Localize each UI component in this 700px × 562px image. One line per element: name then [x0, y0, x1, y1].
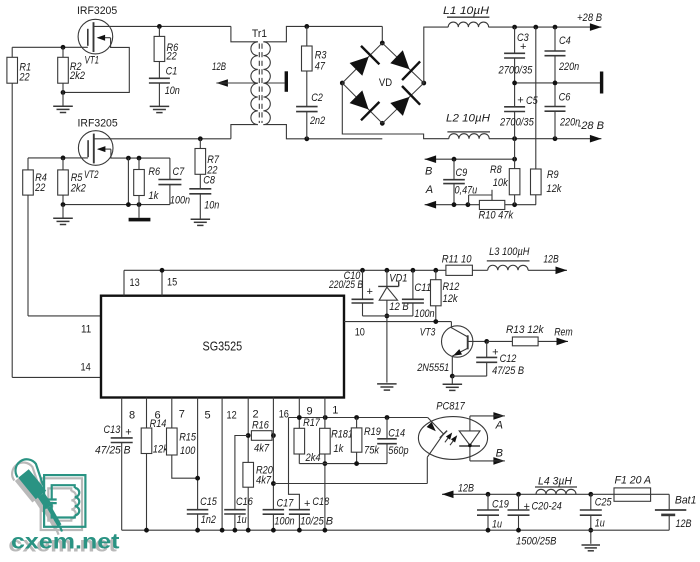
svg-text:+: + — [517, 95, 523, 107]
svg-text:1k: 1k — [148, 190, 158, 202]
svg-text:R16: R16 — [252, 420, 270, 432]
svg-text:R11 10: R11 10 — [442, 254, 473, 266]
svg-text:47: 47 — [315, 60, 326, 72]
svg-text:Rem: Rem — [554, 326, 573, 338]
svg-text:Tr1: Tr1 — [252, 28, 267, 40]
svg-text:C1: C1 — [166, 66, 178, 78]
svg-text:22: 22 — [34, 182, 45, 194]
svg-text:C6: C6 — [559, 91, 571, 103]
svg-text:SG3525: SG3525 — [203, 339, 243, 354]
svg-text:B: B — [425, 166, 432, 178]
svg-text:14: 14 — [81, 362, 91, 374]
svg-text:R10 47k: R10 47k — [479, 209, 514, 221]
svg-text:VD1: VD1 — [389, 273, 407, 285]
svg-text:100n: 100n — [170, 194, 190, 206]
svg-text:10n: 10n — [165, 85, 180, 97]
svg-text:B: B — [326, 516, 333, 528]
svg-text:R15: R15 — [179, 432, 197, 444]
svg-text:12B: 12B — [212, 61, 226, 73]
svg-text:9: 9 — [307, 406, 313, 418]
svg-text:10k: 10k — [493, 177, 509, 189]
svg-text:47/25 B: 47/25 B — [492, 365, 524, 377]
svg-text:2k4: 2k4 — [305, 452, 321, 464]
svg-text:+: + — [367, 286, 373, 298]
svg-text:C5: C5 — [526, 95, 538, 107]
svg-text:VT1: VT1 — [85, 55, 100, 67]
svg-text:R6: R6 — [148, 166, 160, 178]
svg-text:12k: 12k — [443, 293, 459, 305]
svg-text:0,47u: 0,47u — [455, 184, 478, 196]
svg-text:C4: C4 — [559, 35, 571, 47]
svg-text:-28 B: -28 B — [578, 120, 605, 132]
svg-text:10/25: 10/25 — [300, 516, 324, 528]
svg-text:C11: C11 — [414, 282, 431, 294]
svg-text:L1 10µH: L1 10µH — [443, 5, 489, 17]
svg-text:12: 12 — [227, 409, 237, 421]
svg-text:5: 5 — [205, 409, 211, 421]
svg-text:B: B — [496, 448, 503, 460]
svg-text:2k2: 2k2 — [70, 183, 86, 195]
svg-text:4k7: 4k7 — [254, 442, 270, 454]
svg-text:R12: R12 — [443, 281, 460, 293]
svg-text:2700/35: 2700/35 — [499, 117, 534, 129]
svg-text:10n: 10n — [204, 199, 219, 211]
svg-text:IRF3205: IRF3205 — [77, 5, 117, 17]
svg-text:2700/35: 2700/35 — [498, 64, 533, 76]
svg-text:VT2: VT2 — [84, 169, 99, 181]
svg-text:100: 100 — [180, 445, 196, 457]
svg-text:R8: R8 — [490, 164, 502, 176]
svg-text:1u: 1u — [492, 519, 502, 531]
svg-text:12B: 12B — [543, 254, 558, 266]
svg-text:L4 3µH: L4 3µH — [538, 475, 572, 487]
svg-text:C18: C18 — [312, 496, 330, 508]
svg-text:A: A — [425, 184, 433, 196]
svg-text:C17: C17 — [277, 497, 295, 509]
svg-text:IRF3205: IRF3205 — [78, 117, 118, 129]
svg-text:C19: C19 — [492, 499, 509, 511]
svg-text:12B: 12B — [458, 483, 474, 495]
svg-text:R13 12k: R13 12k — [506, 324, 544, 336]
svg-text:220n: 220n — [559, 117, 580, 129]
svg-text:F1 20 A: F1 20 A — [615, 475, 652, 487]
svg-text:C13: C13 — [104, 424, 122, 436]
svg-text:Bat1: Bat1 — [675, 495, 697, 507]
svg-text:L3 100µH: L3 100µH — [489, 246, 529, 258]
svg-text:220/25 B: 220/25 B — [328, 279, 363, 291]
svg-text:7: 7 — [179, 409, 185, 421]
svg-text:15: 15 — [167, 277, 177, 289]
svg-text:13: 13 — [130, 277, 140, 289]
svg-text:C7: C7 — [173, 166, 185, 178]
svg-text:C14: C14 — [388, 427, 405, 439]
svg-text:1: 1 — [332, 404, 338, 416]
svg-text:+: + — [520, 41, 526, 53]
svg-text:C20-24: C20-24 — [532, 501, 562, 513]
svg-text:12B: 12B — [676, 518, 692, 530]
svg-text:+: + — [125, 426, 131, 438]
svg-text:11: 11 — [81, 324, 91, 336]
svg-text:75k: 75k — [364, 444, 380, 456]
svg-text:+: + — [524, 501, 530, 513]
svg-text:R9: R9 — [547, 169, 559, 181]
svg-text:22: 22 — [166, 51, 177, 63]
svg-text:8: 8 — [129, 409, 135, 421]
svg-text:16: 16 — [279, 409, 289, 421]
svg-text:47/25 B: 47/25 B — [95, 445, 131, 457]
svg-text:22: 22 — [19, 72, 30, 84]
svg-text:2k2: 2k2 — [69, 70, 85, 82]
svg-text:C25: C25 — [595, 497, 613, 509]
svg-text:10: 10 — [355, 327, 365, 339]
svg-text:C15: C15 — [200, 496, 218, 508]
svg-text:2N5551: 2N5551 — [416, 362, 449, 374]
svg-text:100n: 100n — [414, 308, 434, 320]
svg-text:+: + — [304, 498, 310, 510]
svg-text:L2 10µH: L2 10µH — [446, 113, 490, 125]
svg-text:C9: C9 — [456, 167, 468, 179]
svg-text:R14: R14 — [150, 418, 167, 430]
svg-text:VD: VD — [379, 77, 392, 89]
svg-text:1n2: 1n2 — [201, 514, 216, 526]
svg-text:C8: C8 — [203, 175, 215, 187]
svg-text:560p: 560p — [388, 445, 408, 457]
svg-text:1u: 1u — [237, 514, 247, 526]
svg-text:C2: C2 — [311, 92, 323, 104]
svg-text:1500/25B: 1500/25B — [516, 536, 556, 548]
svg-text:C12: C12 — [500, 353, 517, 365]
svg-text:R19: R19 — [364, 426, 381, 438]
svg-text:R17: R17 — [303, 417, 321, 429]
svg-text:1k: 1k — [333, 443, 343, 455]
svg-text:+28 B: +28 B — [577, 12, 602, 24]
svg-text:12k: 12k — [546, 183, 562, 195]
svg-text:cxem.net: cxem.net — [11, 530, 120, 554]
svg-text:1u: 1u — [595, 518, 605, 530]
svg-text:100n: 100n — [274, 516, 294, 528]
svg-text:VT3: VT3 — [420, 327, 436, 339]
svg-text:PC817: PC817 — [436, 400, 465, 412]
svg-text:4k7: 4k7 — [256, 475, 272, 487]
svg-text:R181: R181 — [331, 429, 353, 441]
svg-text:+: + — [492, 347, 498, 359]
svg-text:2n2: 2n2 — [309, 115, 325, 127]
svg-text:220n: 220n — [558, 61, 579, 73]
svg-text:C16: C16 — [236, 496, 254, 508]
svg-text:A: A — [495, 420, 503, 432]
